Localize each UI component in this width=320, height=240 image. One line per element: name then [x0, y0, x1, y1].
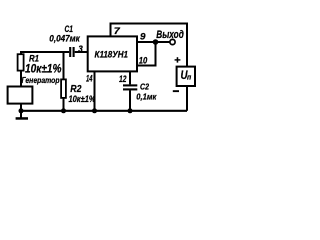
- svg-text:3: 3: [78, 44, 83, 55]
- svg-text:Генератор: Генератор: [22, 76, 60, 85]
- svg-text:+: +: [174, 55, 181, 66]
- svg-text:10к±1%: 10к±1%: [25, 63, 62, 75]
- svg-text:С2: С2: [140, 82, 149, 92]
- svg-text:R1: R1: [29, 53, 39, 63]
- svg-text:7: 7: [114, 26, 121, 37]
- svg-text:14: 14: [86, 74, 93, 85]
- svg-text:10: 10: [139, 55, 148, 66]
- svg-text:0,047мк: 0,047мк: [49, 33, 81, 43]
- svg-text:0,1мк: 0,1мк: [136, 91, 157, 101]
- svg-text:К118УН1: К118УН1: [95, 50, 129, 61]
- svg-text:С1: С1: [65, 24, 74, 34]
- svg-text:9: 9: [140, 32, 146, 43]
- svg-text:10к±1%: 10к±1%: [69, 94, 96, 105]
- svg-text:Выход: Выход: [156, 29, 184, 41]
- svg-text:12: 12: [119, 74, 127, 85]
- svg-text:п: п: [187, 74, 192, 81]
